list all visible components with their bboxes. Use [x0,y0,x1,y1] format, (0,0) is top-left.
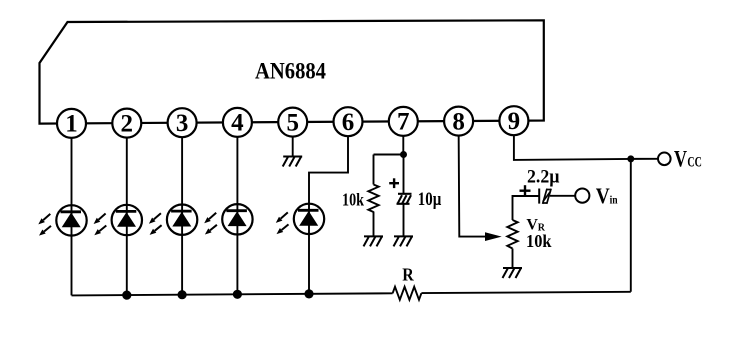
svg-text:10µ: 10µ [418,190,442,210]
svg-text:3: 3 [176,110,189,137]
svg-text:9: 9 [508,108,521,135]
svg-text:5: 5 [286,109,299,136]
svg-text:V: V [674,147,687,173]
svg-text:8: 8 [452,108,465,135]
svg-text:AN6884: AN6884 [255,59,326,84]
svg-text:2: 2 [121,110,134,137]
svg-text:10k: 10k [526,231,552,251]
svg-text:4: 4 [231,110,244,137]
svg-text:V: V [596,183,610,208]
svg-text:CC: CC [687,155,702,171]
svg-text:R: R [402,265,414,285]
svg-text:1: 1 [65,111,78,138]
svg-text:7: 7 [397,109,410,136]
svg-text:in: in [610,195,619,207]
svg-text:10k: 10k [342,189,364,209]
svg-text:2.2µ: 2.2µ [527,166,560,187]
svg-text:6: 6 [342,109,355,136]
